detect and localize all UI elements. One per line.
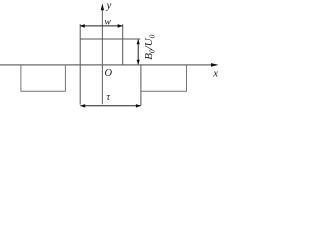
svg-text:y: y xyxy=(106,0,112,11)
x axis xyxy=(0,63,219,67)
B0/U0 label (rotated) xyxy=(143,34,156,59)
y axis xyxy=(101,3,104,104)
right negative pulse left wall (also tau extension) xyxy=(140,65,142,106)
central pulse top edge (extended right for B arrow) xyxy=(80,38,140,40)
svg-text:B0/U0: B0/U0 xyxy=(143,34,156,59)
svg-text:τ: τ xyxy=(106,92,110,103)
tau dimension arrow xyxy=(80,104,141,108)
w dimension arrow xyxy=(80,24,123,28)
svg-text:x: x xyxy=(212,68,218,79)
svg-text:w: w xyxy=(104,17,111,28)
left negative pulse xyxy=(21,65,66,92)
central pulse left wall (also tau extension) xyxy=(79,24,81,104)
svg-text:O: O xyxy=(105,68,113,79)
central pulse right wall xyxy=(122,24,124,64)
B0/U0 height dimension arrow xyxy=(137,39,140,64)
right negative pulse bottom and right wall xyxy=(141,65,187,92)
